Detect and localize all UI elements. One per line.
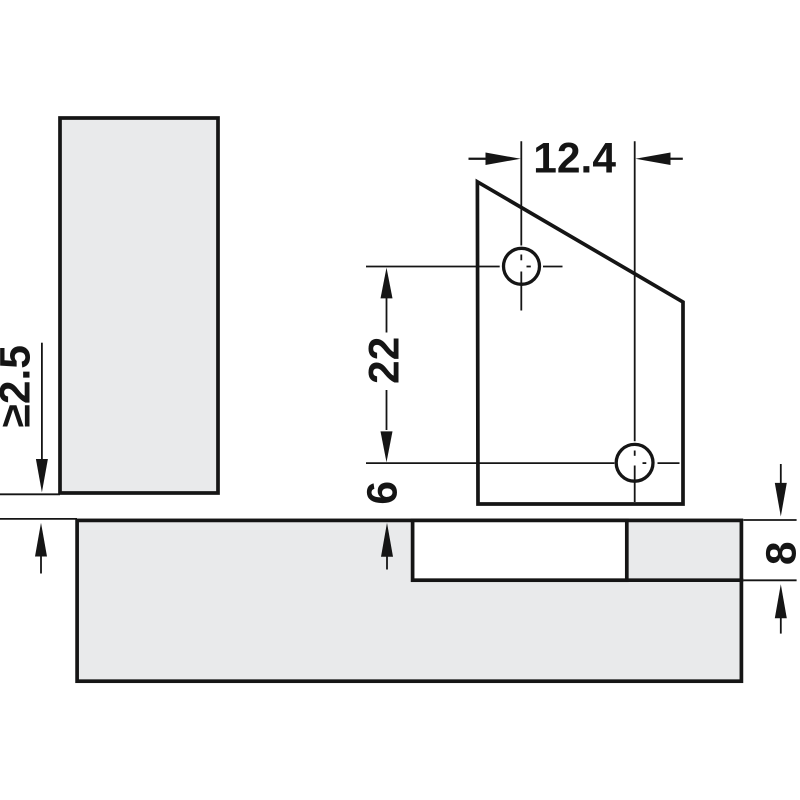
dimension 8 top shaft bbox=[780, 464, 782, 484]
hole 1 centerline vertical lower segment bbox=[520, 272, 522, 311]
dimension 12.4 left arrowhead bbox=[486, 153, 521, 165]
drill hole 1 bbox=[504, 248, 540, 284]
mounting plate outline bbox=[477, 182, 683, 504]
dimension 8 top arrowhead bbox=[775, 483, 787, 517]
hole 2 centerline horizontal left segment (22 and 6 extension) bbox=[366, 462, 614, 464]
dimension 22 top arrowhead bbox=[381, 268, 393, 299]
svg-text:≥2.5: ≥2.5 bbox=[0, 345, 40, 427]
dimension 22 bottom arrowhead bbox=[381, 431, 393, 462]
dimension 6 shaft bbox=[386, 555, 388, 570]
dimension 22 shaft lower bbox=[386, 390, 388, 430]
svg-text:6: 6 bbox=[360, 481, 407, 505]
dimension 12.4 right tail bbox=[669, 158, 683, 160]
hole 2 centerline vertical upper segment (12.4 extension) bbox=[634, 141, 636, 441]
extension line panel top to right margin (8 dim) bbox=[743, 519, 796, 521]
hole 1 centerline horizontal dash bbox=[527, 266, 531, 268]
hole 2 centerline vertical dash bbox=[634, 451, 636, 456]
dimension ge2.5 shaft down bbox=[41, 343, 43, 460]
svg-text:22: 22 bbox=[361, 337, 408, 384]
dimension ge2.5 arrowhead up bbox=[35, 523, 47, 557]
dimension 8 bottom arrowhead bbox=[775, 584, 787, 618]
dimension ge2.5 arrowhead down bbox=[36, 459, 48, 492]
drill hole 2 bbox=[616, 444, 653, 481]
hole 1 centerline vertical upper segment (12.4 extension) bbox=[520, 141, 522, 245]
hole 2 centerline horizontal right segment bbox=[658, 462, 680, 464]
dimension 12.4 left tail bbox=[469, 158, 488, 160]
hole 1 centerline horizontal right segment bbox=[543, 266, 563, 268]
hole 2 centerline vertical lower segment bbox=[634, 466, 636, 503]
recess depth line to panel edge bbox=[627, 578, 744, 582]
extension line at cabinet panel top edge bbox=[0, 518, 77, 520]
cabinet panel (horizontal board, bottom) bbox=[77, 520, 741, 681]
svg-text:8: 8 bbox=[759, 541, 800, 565]
hole 2 centerline horizontal dash bbox=[643, 462, 647, 464]
extension line recess bottom to right margin (8 dim) bbox=[743, 579, 796, 581]
hole 1 centerline vertical dash bbox=[520, 255, 522, 261]
svg-text:12.4: 12.4 bbox=[533, 136, 616, 183]
dimension 8 bottom shaft bbox=[780, 617, 782, 634]
dimension ge2.5 shaft up bbox=[40, 555, 42, 574]
hole 1 centerline horizontal left segment (22 extension) bbox=[366, 266, 500, 268]
hinge cup recess (white cutout in cabinet panel) bbox=[413, 520, 627, 580]
extension line at door bottom edge bbox=[0, 493, 60, 495]
dimension 22 shaft upper bbox=[386, 297, 388, 333]
dimension 6 arrowhead up bbox=[381, 523, 393, 557]
door panel (vertical board, top left) bbox=[60, 118, 218, 493]
dimension 12.4 right arrowhead bbox=[635, 153, 670, 165]
